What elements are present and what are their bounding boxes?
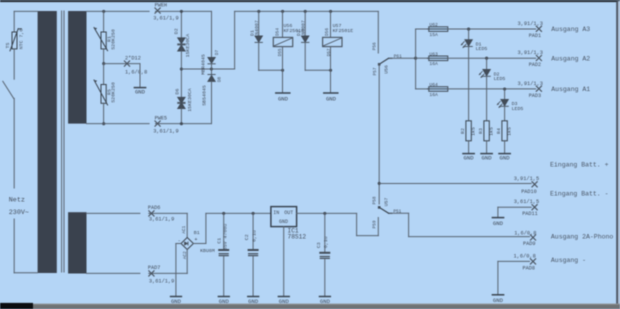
wire pad down to ground <box>139 64 141 87</box>
svg-text:PAD1: PAD1 <box>529 33 541 39</box>
svg-text:D57: D57 <box>327 48 332 56</box>
LED D3 symbol <box>497 100 508 108</box>
frame top bar <box>0 0 620 2</box>
schottky diode upper of U2 MBR4045 <box>208 58 215 64</box>
wire to diode D1 <box>258 11 260 35</box>
svg-text:LED5: LED5 <box>512 106 524 112</box>
wire Ausgang minus down <box>497 261 499 294</box>
ground bar under bridge <box>171 296 182 298</box>
pad PAD10 cross <box>532 182 537 187</box>
svg-text:GND: GND <box>219 298 230 305</box>
pad PAD6 cross <box>149 211 154 216</box>
svg-text:3,61/1,9: 3,61/1,9 <box>153 129 178 135</box>
transformer T1 secondary winding 1 bar <box>68 11 86 124</box>
svg-text:3,91/1,3: 3,91/1,3 <box>518 50 543 56</box>
ground bar under C1 <box>218 296 229 298</box>
wire to LED D3 <box>504 89 506 99</box>
svg-text:+: + <box>194 237 197 243</box>
diode D1 1N4007 symbol <box>255 36 262 43</box>
pad PAD11 cross <box>532 205 537 210</box>
wire Ausgang minus to PAD8 <box>498 260 530 262</box>
varistor R5 body <box>94 80 108 105</box>
svg-text:U63: U63 <box>429 51 438 57</box>
svg-text:D7: D7 <box>215 50 220 56</box>
wire secondary1 top rail AC <box>87 10 212 12</box>
ground bar under relay U56 <box>276 92 290 94</box>
svg-text:IN: IN <box>273 210 279 216</box>
wire bridge plus output <box>193 213 206 243</box>
wire LED D1 to resistor <box>468 47 470 121</box>
relay U57 coil body <box>323 37 342 46</box>
varistor R1 body <box>94 28 108 51</box>
svg-text:P58: P58 <box>373 196 378 204</box>
pad PAD3 cross <box>536 86 541 91</box>
ground bar battery minus <box>492 217 503 219</box>
svg-text:1,6/0,8: 1,6/0,8 <box>125 69 147 75</box>
wire relay1 coil bottom to ground <box>282 47 284 93</box>
fuse U64 body <box>428 87 448 92</box>
wire switch to primary bottom <box>13 98 15 272</box>
wire battery plus <box>379 183 531 185</box>
svg-text:OUT: OUT <box>284 210 293 216</box>
wire relay2 coil bottom to ground <box>330 47 332 93</box>
svg-text:AC1: AC1 <box>182 225 187 233</box>
wire D2 to relay2 coil bottom <box>305 69 330 71</box>
wire TVS column bottom <box>180 109 182 124</box>
node junction relay1 coil bottom <box>281 69 284 72</box>
wire varistor R5 to bottom line <box>103 103 105 123</box>
svg-text:Ausgang A1: Ausgang A1 <box>551 86 590 93</box>
relay U56 coil body <box>273 37 292 46</box>
svg-text:LED5: LED5 <box>494 76 506 82</box>
wire resistor R4 to ground <box>504 141 506 153</box>
wire bus to fuse U62 <box>416 28 428 30</box>
svg-text:Ausgang -: Ausgang - <box>551 257 586 264</box>
wire C3 to ground <box>324 259 326 296</box>
ground bar under relay U57 <box>324 92 338 94</box>
svg-text:Netz: Netz <box>9 197 25 205</box>
transformer T1 core line 2 <box>63 11 65 272</box>
svg-text:GND: GND <box>279 219 288 225</box>
wire output down <box>408 213 410 236</box>
node junction C1 <box>222 212 225 215</box>
node junction TVS at node line <box>180 67 183 70</box>
wire to LED D2 <box>486 58 488 69</box>
wire junction to varistor R5 <box>103 64 105 85</box>
node junction C2 <box>252 212 255 215</box>
node junction LED D1 <box>467 28 470 31</box>
thermistor TS NTC body <box>10 29 21 51</box>
svg-text:16A: 16A <box>429 61 438 67</box>
pad PWEH cross on top rail <box>155 8 160 13</box>
wire contact U56 output <box>390 57 416 59</box>
wire C2 top <box>252 213 254 249</box>
contact U57 pivot dot <box>378 206 381 209</box>
svg-text:2*D12: 2*D12 <box>125 56 141 62</box>
wire bus to fuse U63 <box>416 57 428 59</box>
svg-text:GND: GND <box>171 298 182 305</box>
pad PAD2 cross <box>536 55 541 60</box>
wire fuse U62 to pad PAD1 <box>448 28 536 30</box>
wire LED D3 to resistor <box>504 107 506 121</box>
wire gap before PAD7 pad <box>140 272 148 274</box>
svg-text:1,6/0,8: 1,6/0,8 <box>514 230 536 236</box>
wire gap before PWEH pad <box>150 10 155 12</box>
wire to diode D2 <box>304 11 306 35</box>
svg-text:GND: GND <box>320 298 331 305</box>
svg-text:PAD8: PAD8 <box>523 266 535 272</box>
wire secondary2 bottom return <box>87 272 188 274</box>
diode D2 1N4007 symbol <box>302 36 309 43</box>
svg-text:PAD3: PAD3 <box>529 93 541 99</box>
wire TVS column middle <box>180 51 182 97</box>
svg-text:GND: GND <box>493 297 504 304</box>
wire diode D1 bottom <box>258 43 260 71</box>
bridge rectifier B1 body <box>181 238 193 250</box>
wire fuse U64 to pad PAD3 <box>448 88 536 90</box>
wire mains left vertical to NTC <box>13 11 15 32</box>
regulator IC1 78S12 box <box>271 207 297 227</box>
wire fuse U63 to pad PAD2 <box>448 57 536 59</box>
svg-text:GND: GND <box>326 95 337 102</box>
svg-text:KF2501E: KF2501E <box>333 28 354 34</box>
fuse U62 body <box>428 27 448 32</box>
svg-text:PAD2: PAD2 <box>529 62 541 68</box>
svg-text:P57: P57 <box>373 67 378 75</box>
svg-text:P59: P59 <box>372 220 377 228</box>
wire primary bottom <box>14 272 37 274</box>
wire long pole vertical <box>378 64 380 204</box>
LED D1 symbol <box>461 40 472 48</box>
wire bridge minus to ground <box>176 244 181 297</box>
ground bar under C2 <box>248 296 259 298</box>
svg-text:GND: GND <box>135 89 146 96</box>
svg-text:Ausgang 2A-Phono: Ausgang 2A-Phono <box>551 233 614 240</box>
svg-text:D8: D8 <box>218 77 223 83</box>
wire DC top rail <box>235 10 379 12</box>
node junction TVS bottom <box>180 122 183 125</box>
node junction LED D3 <box>503 87 506 90</box>
transformer T1 primary winding bar <box>38 11 57 273</box>
wire secondary1 bottom line <box>87 123 212 125</box>
svg-text:U62: U62 <box>429 22 438 28</box>
ground bar Ausgang minus <box>492 294 503 296</box>
svg-text:LED5: LED5 <box>476 46 488 52</box>
fuse U63 body <box>428 56 448 61</box>
contact U57 nc pin stub <box>377 218 379 236</box>
wire IC1 ground pin <box>283 227 285 296</box>
wire nc loop vertical <box>356 213 358 235</box>
wire C1 to ground <box>223 256 225 296</box>
wire resistor R2 to ground <box>468 141 470 153</box>
wire gap before PWE5 pad <box>150 123 155 125</box>
wire output to PAD9 <box>409 236 530 238</box>
wire nc loop bottom <box>357 235 379 237</box>
svg-text:16A: 16A <box>429 92 438 98</box>
wire bus to fuse U64 <box>416 88 428 90</box>
LED D2 symbol <box>479 70 490 78</box>
wire TVS column top <box>180 11 182 37</box>
ground bar under IC1 <box>278 296 289 298</box>
contact U56 blade <box>379 58 392 64</box>
pad 2*D12 cross <box>124 61 129 66</box>
svg-text:GND: GND <box>279 298 290 305</box>
node junction fuse bus <box>414 57 417 60</box>
contact U57 blade <box>379 207 392 213</box>
frame bottom gray bar <box>30 304 620 309</box>
wire MBR mid <box>211 64 213 75</box>
svg-text:PAD6: PAD6 <box>148 205 160 211</box>
pad PWE5 cross on bottom line <box>155 121 160 126</box>
capacitor C1 plates <box>219 250 228 256</box>
node junction batt plus branch <box>378 182 381 185</box>
wire AC1 down to bridge <box>186 213 188 237</box>
node junction varistor top <box>102 10 105 13</box>
node junction relay2 coil bottom <box>329 69 332 72</box>
wire relay1 coil top <box>282 11 284 37</box>
svg-text:PAD10: PAD10 <box>521 189 537 195</box>
node junction D1 top <box>257 10 260 13</box>
node junction pad branch <box>102 62 105 65</box>
svg-text:3,61/1,5: 3,61/1,5 <box>514 199 539 205</box>
wire LED D2 to resistor <box>486 77 488 121</box>
wire D1 to relay coil bottom <box>259 69 283 71</box>
transformer T1 core line 1 <box>61 11 63 272</box>
ground bar under R4 <box>499 153 510 155</box>
wire MBR column top <box>211 11 213 57</box>
contact U56 pivot dot <box>378 63 381 66</box>
svg-text:3,91/1,3: 3,91/1,3 <box>518 81 543 87</box>
svg-text:GND: GND <box>482 155 493 162</box>
wire contact U57 output <box>390 212 409 214</box>
wire varistor R1 to junction <box>103 49 105 64</box>
node junction MBR mid <box>210 67 213 70</box>
capacitor C2 plates <box>249 250 258 256</box>
svg-text:P56: P56 <box>373 42 378 50</box>
svg-text:B1: B1 <box>194 230 200 236</box>
TVS diode D2 symbol <box>178 38 185 51</box>
wire to LED D1 <box>468 29 470 40</box>
node junction LED D2 <box>485 57 488 60</box>
svg-text:Ausgang A2: Ausgang A2 <box>551 55 590 62</box>
frame bottom gray bar top edge <box>30 304 620 305</box>
svg-text:PWE5: PWE5 <box>155 116 167 122</box>
svg-text:PWEH: PWEH <box>155 2 167 8</box>
ground bar under R3 <box>481 153 492 155</box>
wire resistor R3 to ground <box>486 141 488 153</box>
svg-text:3,61/1,9: 3,61/1,9 <box>149 279 174 285</box>
wire battery minus to ground <box>497 207 499 217</box>
svg-text:PAD7: PAD7 <box>148 265 160 271</box>
frame right border <box>616 1 620 304</box>
wire DC riser <box>234 11 236 69</box>
wire relay2 coil top <box>330 11 332 37</box>
wire MBR column bottom <box>211 82 213 124</box>
wire bridge AC2 down <box>186 250 188 274</box>
switch S1 blade <box>3 81 14 98</box>
capacitor C3 plates <box>320 253 329 259</box>
node junction relay1 top <box>281 10 284 13</box>
TVS diode D6 symbol <box>178 97 185 108</box>
svg-text:230V~: 230V~ <box>9 209 29 217</box>
svg-text:GND: GND <box>278 95 289 102</box>
svg-text:PAD9: PAD9 <box>523 241 535 247</box>
ground bar under 2*D12 <box>134 87 145 89</box>
resistor R3 body <box>484 121 489 141</box>
resistor R2 body <box>466 121 471 141</box>
transformer T1 secondary winding 2 bar <box>68 212 86 273</box>
svg-text:GND: GND <box>500 155 511 162</box>
svg-text:D54: D54 <box>276 28 281 36</box>
wire IC1 out <box>297 212 357 214</box>
svg-text:U64: U64 <box>429 82 438 88</box>
ground bar under C3 <box>320 296 331 298</box>
svg-text:3,61/1,9: 3,61/1,9 <box>153 16 178 22</box>
svg-text:KBU8M: KBU8M <box>200 248 215 254</box>
svg-text:D56: D56 <box>325 28 330 36</box>
wire secondary2 top to bridge <box>87 212 188 214</box>
wire to varistor R1 <box>103 11 105 32</box>
pad PAD9 cross <box>530 235 535 240</box>
schottky diode lower of U2 MBR4045 <box>208 75 215 82</box>
node junction D2 top <box>304 10 307 13</box>
wire battery minus <box>498 206 531 208</box>
svg-text:Eingang Batt. -: Eingang Batt. - <box>550 191 609 198</box>
wire diode D2 bottom <box>304 43 306 71</box>
pad PAD8 cross <box>530 259 535 264</box>
wire fuse bus vertical <box>415 29 417 89</box>
frame bottom-left black block <box>0 303 33 309</box>
wire break behind Netz text <box>13 190 15 218</box>
svg-text:3,91/1,3: 3,91/1,3 <box>518 21 543 27</box>
svg-text:Ausgang A3: Ausgang A3 <box>551 26 590 33</box>
wire branch to pad 2*D12 <box>104 63 140 65</box>
wire DC rail to regulator <box>206 212 271 214</box>
wire C1 top <box>223 213 225 249</box>
svg-text:15A: 15A <box>429 32 438 38</box>
svg-text:1,6/0,8: 1,6/0,8 <box>514 254 536 260</box>
resistor R4 body <box>502 121 507 141</box>
wire contact U56 common stub <box>377 11 379 53</box>
node junction varistor bottom <box>102 122 105 125</box>
wire NTC to switch <box>13 49 15 79</box>
svg-text:78S12: 78S12 <box>288 233 307 240</box>
svg-text:GND: GND <box>493 220 504 227</box>
wire C3 top <box>324 213 326 252</box>
svg-text:GND: GND <box>248 298 259 305</box>
wire rectifier node line <box>181 68 234 70</box>
svg-text:3,91/1,5: 3,91/1,5 <box>514 176 539 182</box>
wire mains L top <box>14 10 37 12</box>
svg-text:3,61/1,9: 3,61/1,9 <box>149 217 174 223</box>
ground bar under R2 <box>463 153 474 155</box>
node junction C3 <box>323 212 326 215</box>
wire gap before PAD6 pad <box>140 212 148 214</box>
svg-text:GND: GND <box>464 155 475 162</box>
wire C2 to ground <box>252 256 254 296</box>
pad PAD1 cross <box>536 26 541 31</box>
pad PAD7 cross <box>149 271 154 276</box>
node junction TVS top <box>180 10 183 13</box>
svg-text:PAD11: PAD11 <box>522 211 538 217</box>
node junction relay2 top <box>329 10 332 13</box>
svg-text:Eingang Batt. +: Eingang Batt. + <box>550 161 609 168</box>
